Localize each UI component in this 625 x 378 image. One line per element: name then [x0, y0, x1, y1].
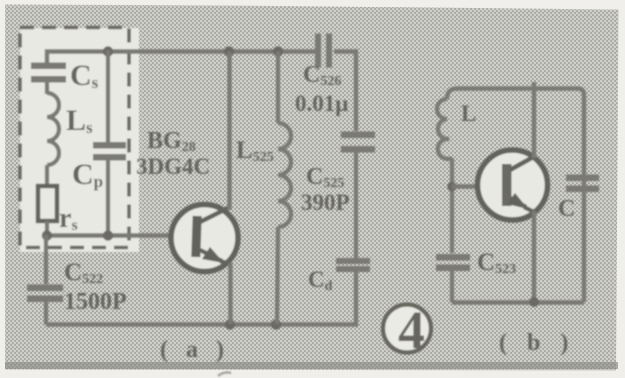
resistor rs: [38, 186, 57, 221]
transistor Q1 circle: [171, 205, 238, 272]
transistor Q2 emitter lead with arrow: [510, 198, 534, 212]
wire: Ls to rs: [45, 165, 49, 187]
capacitor C525: [341, 132, 375, 153]
wire: C522 to bottom rail: [44, 301, 48, 325]
wire: top rail (a): [47, 52, 356, 132]
wire: C523 to bottom rail: [450, 269, 454, 303]
capacitor Cp: [93, 142, 126, 161]
wire: rs to bottom rail: [45, 221, 49, 236]
capacitor C526: [315, 34, 332, 68]
svg-text:4: 4: [398, 300, 425, 360]
svg-text:( b ): ( b ): [499, 330, 575, 356]
inductor L525: [277, 52, 291, 325]
svg-text:( a ): ( a ): [160, 337, 230, 363]
wire: base wire (b): [452, 184, 479, 188]
wire: emitter down: [228, 263, 232, 324]
node: emitter bottom junction: [225, 319, 235, 329]
inductor Ls: [47, 93, 59, 165]
node: emitter bottom junction (b): [529, 297, 539, 307]
node: series arm bottom junction: [42, 230, 52, 240]
figure number circle 4: [383, 305, 431, 353]
wire: L to base node: [450, 158, 454, 253]
wire: left branch down to C522: [44, 235, 48, 284]
svg-text:0.01μ: 0.01μ: [295, 91, 348, 116]
node: base junction (b): [447, 182, 457, 192]
transistor Q1 base bar: [191, 216, 201, 257]
wire: collector up: [227, 52, 231, 211]
wire: collector up (b): [532, 82, 536, 158]
capacitor C522: [27, 285, 63, 303]
wire: Cs to Ls: [45, 82, 49, 94]
node: L525 top junction: [273, 46, 283, 56]
wire: crystal bottom rail / base wire: [47, 233, 172, 237]
transistor Q1 collector lead: [200, 207, 230, 222]
svg-text:1500P: 1500P: [64, 289, 127, 315]
capacitor Cs: [31, 63, 66, 83]
node: Cp top junction: [103, 46, 113, 56]
inductor L (b): [437, 99, 452, 159]
capacitor Cd: [336, 258, 370, 272]
wire: Cp branch vertical: [106, 50, 110, 235]
wire: C525 to Cd: [354, 150, 358, 258]
svg-text:C: C: [558, 196, 575, 222]
transistor Q2 circle: [478, 150, 548, 220]
transistor Q1 emitter lead with arrow: [200, 250, 231, 264]
stray pen mark bottom: [218, 372, 231, 376]
crystal dashed box border: [20, 28, 129, 248]
svg-text:3DG4C: 3DG4C: [136, 154, 210, 179]
wire: bottom rail (a): [46, 268, 356, 325]
node: collector top junction: [224, 46, 234, 56]
svg-text:390P: 390P: [301, 190, 350, 215]
svg-text:L: L: [461, 101, 476, 126]
wire: top rail (b): [447, 89, 584, 303]
bottom edge shade: [5, 362, 618, 369]
transistor Q2 collector lead: [510, 156, 535, 170]
crystal dashed box white interior: [20, 28, 139, 252]
transistor Q2 base bar: [502, 164, 512, 206]
wire: emitter down (b): [532, 211, 536, 302]
capacitor C523: [436, 254, 470, 271]
node: L525 bottom junction: [271, 319, 281, 329]
wire: bottom rail (b): [452, 300, 584, 304]
capacitor C (b): [566, 175, 599, 193]
node: Cp bottom junction: [103, 230, 113, 240]
